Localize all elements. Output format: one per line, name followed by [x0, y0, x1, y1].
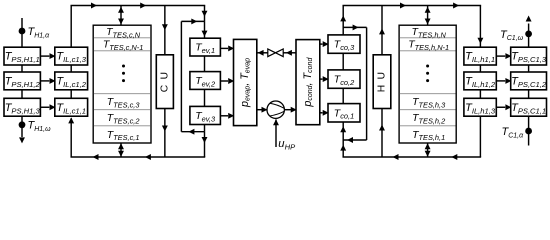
wire: top-right supply (y=5.5)	[342, 5, 481, 7]
wire: T_ev drain to bottom wire	[204, 132, 206, 157]
TES,h cell divider	[400, 125, 456, 127]
wire: T_co,3 to T_co,2 connector	[342, 53, 344, 70]
wire: T_IL,h1,3 to T_PS,C1,1 arrow	[496, 106, 505, 108]
wire: evaporator to compressor	[257, 109, 267, 111]
block T_co,2	[328, 70, 360, 88]
wire: top wire corner down into T_IL,h1,1	[479, 6, 481, 48]
wire: T_PS,H1,3 to T_IL,c1,1 arrow	[40, 106, 49, 108]
evaporator block p_evap T_evap	[234, 39, 257, 125]
wire: condenser to T_co,1 arrow	[320, 112, 323, 114]
wire: evaporator recirculation bypass riser (x=181.4)	[180, 21, 182, 131]
TES,c cell divider	[94, 37, 150, 39]
block T_PS,C1,3	[511, 47, 547, 65]
block CU	[156, 55, 173, 109]
wire: T_ev,3 outlet down	[204, 125, 206, 132]
block T_PS,H1,1	[4, 47, 40, 65]
wire: H1 inlet line (x=22)	[21, 18, 23, 47]
wire: T_ev,1 to evaporator arrow	[220, 47, 228, 49]
arrow on bottom-left wire (x=145)	[145, 154, 151, 160]
wire: bottom wire return into T_IL,c1,1	[70, 118, 72, 157]
TES,h cell divider	[400, 37, 456, 39]
wire: T_ev,3 to evaporator arrow	[220, 115, 228, 117]
node T_H1,omega	[19, 121, 26, 128]
arrow on bottom-right wire (x=451)	[451, 154, 457, 160]
TES,c cell divider	[94, 93, 150, 95]
TES cold tank box T_TES,c	[93, 25, 151, 143]
wire: bottom-left return (y=157)	[70, 156, 205, 158]
wire: TES,h top double arrow	[427, 6, 429, 26]
TES,h ellipsis dots	[426, 65, 429, 68]
wire: top-left supply (y=5.5)	[70, 5, 205, 7]
arrow on bottom-left wire (x=92)	[93, 154, 99, 160]
svg-text:HU: HU	[377, 67, 388, 93]
wire: T_IL,h1,2 to T_PS,C1,2 arrow	[496, 80, 505, 82]
block T_ev,1	[190, 38, 221, 56]
arrow on top-left wire (x=146)	[140, 3, 146, 9]
block T_PS,H1,2	[4, 72, 40, 90]
wire: top wire down into CU	[164, 6, 166, 55]
svg-text:TC1,ω: TC1,ω	[500, 29, 524, 42]
block T_IL,h1,2	[464, 72, 496, 90]
node T_C1,omega	[525, 31, 532, 38]
TES,h cell divider	[400, 109, 456, 111]
wire: compressor control input u_HP	[275, 119, 277, 147]
wire: C1 line between T_PS,C1,2 and T_PS,C1,1	[528, 90, 530, 99]
wire: C1 inlet line (bottom right)	[528, 116, 530, 145]
wire: T_PS,H1,2 to T_IL,c1,2 arrow	[40, 80, 49, 82]
TES,c ellipsis dots	[122, 65, 125, 68]
wire: C1 outlet line with arrow (top right)	[528, 24, 530, 48]
wire: CU down to bottom wire	[164, 109, 166, 158]
wire: T_co,2 to T_co,1 connector	[342, 88, 344, 103]
wire: C1 line between T_PS,C1,3 and T_PS,C1,2	[528, 65, 530, 72]
svg-text:CU: CU	[159, 67, 170, 93]
wire: condenser recirculation downcomer (x=366.6)	[366, 27, 368, 140]
svg-text:uHP: uHP	[278, 138, 296, 151]
block HU	[373, 55, 391, 109]
wire: IL,h1 connector 2-3	[479, 90, 481, 99]
arrow on bottom-right wire (x=392)	[393, 154, 399, 160]
block T_ev,3	[190, 106, 221, 124]
wire: T_ev,2 to T_ev,3 connector	[204, 89, 206, 106]
wire: H1 line between T_PS,H1,1 and T_PS,H1,2	[21, 65, 23, 72]
block T_IL,c1,2	[55, 72, 88, 90]
wire: bottom wire riser into T_co,1	[342, 122, 344, 157]
block T_ev,2	[190, 72, 221, 90]
wire: condenser to T_co,3 arrow	[320, 43, 323, 45]
block T_PS,C1,2	[511, 72, 547, 90]
wire: bottom wire up into HU	[381, 109, 383, 158]
svg-text:TC1,α: TC1,α	[501, 126, 524, 139]
wire: H1 outlet line with arrow	[21, 116, 23, 137]
wire: HU up to top wire	[381, 6, 383, 55]
arrow on top-right wire (x=459)	[453, 3, 459, 9]
wire: condenser recirculation branch top	[343, 26, 366, 28]
wire: TES,c bottom double arrow	[120, 143, 122, 157]
block T_IL,c1,1	[55, 98, 88, 116]
block T_PS,H1,3	[4, 98, 40, 116]
wire: T_ev,1 to T_ev,2 connector	[204, 56, 206, 72]
wire: bottom-right return (y=157)	[342, 156, 481, 158]
wire: condenser to expansion valve	[283, 52, 296, 54]
wire: T_PS,H1,1 to T_IL,c1,3 arrow	[40, 55, 49, 57]
node T_H1,alpha	[19, 28, 26, 35]
wire: compressor to condenser	[284, 109, 296, 111]
arrow on top-left wire (x=95)	[91, 3, 97, 9]
block T_PS,C1,1	[511, 98, 547, 116]
compressor circle	[267, 101, 284, 118]
wire: IL,c1 connector 1-2	[70, 65, 72, 72]
wire: condenser recirculation return bottom	[343, 139, 366, 141]
wire: T_IL,h1,1 to T_PS,C1,3 arrow	[496, 55, 505, 57]
wire: expansion valve to evaporator	[257, 52, 268, 54]
wire: H1 line between T_PS,H1,2 and T_PS,H1,3	[21, 90, 23, 99]
wire: IL,c1 column riser to top wire	[70, 6, 72, 48]
block T_IL,c1,3	[55, 47, 88, 65]
TES,h cell divider	[400, 93, 456, 95]
wire: recirc branch at T_ev,3 outlet	[181, 131, 204, 133]
wire: TES,c top double arrow	[120, 6, 122, 26]
wire: T_IL,h1,3 down to bottom wire	[479, 116, 481, 157]
wire: T_co,3 outlet riser to top wire (x=343)	[342, 6, 344, 35]
svg-text:TH1,ω: TH1,ω	[28, 120, 52, 133]
TES hot tank box T_TES,h	[399, 25, 456, 143]
wire: top wire corner down to T_ev,1 (x=204.5)	[204, 6, 206, 22]
TES,c cell divider	[94, 50, 150, 52]
node T_C1,alpha	[525, 128, 532, 135]
wire: IL,c1 connector 2-3	[70, 90, 72, 99]
block T_IL,h1,1	[464, 47, 496, 65]
TES,c cell divider	[94, 109, 150, 111]
wire: TES,h bottom double arrow	[427, 143, 429, 157]
block T_co,1	[328, 104, 360, 122]
wire: condenser to T_co,2 arrow	[320, 78, 323, 80]
TES,h cell divider	[400, 50, 456, 52]
expansion valve	[268, 49, 276, 57]
arrow on top-right wire (x=406)	[400, 3, 406, 9]
wire: T_ev,2 to evaporator arrow	[220, 80, 228, 82]
wire: IL,h1 connector 1-2	[479, 65, 481, 72]
wire: T_ev feed into T_ev,1	[204, 21, 206, 38]
wire: recirculation return joins T_ev feed (junction)	[181, 20, 204, 22]
block T_IL,h1,3	[464, 98, 496, 116]
svg-text:TH1,α: TH1,α	[28, 26, 51, 39]
block T_co,3	[328, 35, 360, 53]
TES,c cell divider	[94, 125, 150, 127]
condenser block p_cond T_cond	[296, 40, 320, 125]
